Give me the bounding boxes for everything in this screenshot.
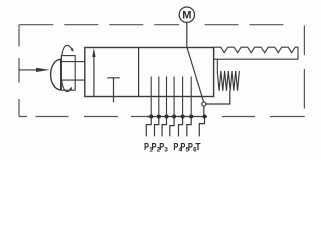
knob dome — [51, 59, 61, 90]
port line P5 — [182, 77, 184, 117]
enclosure bottom border — [19, 116, 305, 118]
svg-text:T: T — [195, 142, 200, 153]
enclosure top border (dash-dot boundary) — [19, 24, 283, 26]
junction dot P1 — [149, 114, 153, 118]
junction dot P4 — [172, 114, 176, 118]
wire motor to valve — [186, 22, 188, 47]
svg-text:M: M — [182, 10, 191, 22]
knob block — [61, 56, 75, 91]
port lead P3 — [162, 117, 166, 137]
port lead P4 — [170, 117, 174, 137]
svg-text:3: 3 — [164, 146, 168, 153]
detent rack — [214, 47, 298, 59]
junction dot P5 — [181, 114, 185, 118]
blocked port T-symbol — [107, 78, 119, 103]
enclosure left border — [18, 25, 20, 117]
valve position divider — [138, 48, 140, 97]
junction dot T — [202, 114, 206, 118]
junction dot P6 — [189, 114, 193, 118]
port line P1 — [150, 77, 152, 117]
port line P4 — [173, 77, 175, 117]
diagonal wire from motor shaft — [187, 48, 204, 103]
flow arrow in left cell — [92, 48, 95, 97]
valve body — [85, 48, 214, 97]
port lead P5 — [179, 117, 183, 137]
wire node to bus — [203, 106, 205, 116]
wire node to spring — [206, 91, 230, 104]
shaft stem line upper — [61, 61, 85, 63]
port line P2 — [158, 77, 160, 117]
port lead P2 — [155, 117, 159, 137]
rotary arrow head top — [71, 48, 74, 52]
junction dot P3 — [164, 114, 168, 118]
port lead T — [199, 117, 204, 137]
bus line solid segment — [147, 116, 207, 118]
enclosure right border — [303, 25, 305, 108]
motor M circle — [179, 7, 194, 22]
port lead P6 — [187, 117, 191, 137]
spring connector wire — [216, 59, 218, 71]
spring — [217, 71, 239, 91]
rotary arrow head bottom — [69, 87, 72, 91]
actuator push arrow — [19, 68, 50, 72]
port line P6 — [190, 77, 192, 117]
node circle — [202, 102, 206, 106]
shaft stem line lower — [61, 79, 85, 81]
rotary arrow arc — [61, 45, 73, 91]
port line P3 — [166, 77, 168, 117]
junction dot P2 — [157, 114, 161, 118]
port lead P1 — [146, 117, 151, 137]
